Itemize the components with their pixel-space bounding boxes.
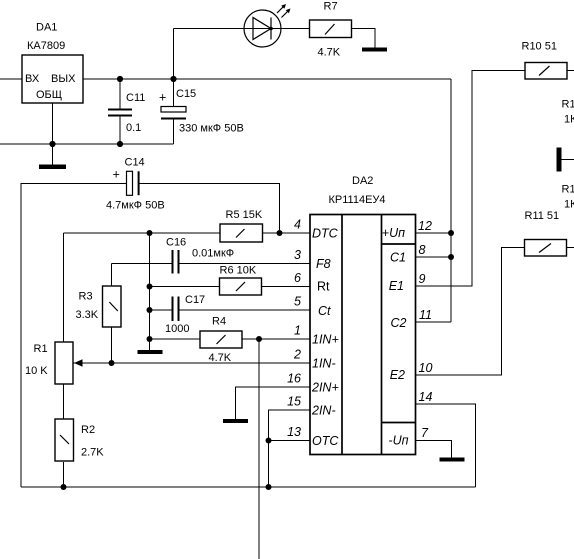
wire: divider rail riser to ground xyxy=(149,233,151,350)
ground (R7) xyxy=(362,48,387,52)
wire: pin 16 rail (2IN+) to ground xyxy=(236,387,311,419)
wire: pin 1 node to bottom edge xyxy=(258,339,260,559)
svg-text:R12: R12 xyxy=(562,99,574,111)
wire: input to DA1 xyxy=(0,78,22,80)
svg-text:+: + xyxy=(113,168,120,182)
svg-text:0.1: 0.1 xyxy=(126,122,141,134)
IC DA2 KR1114EU4 xyxy=(310,175,416,455)
wire: DA2 pin 12 xyxy=(416,232,452,234)
ground (pin 7) xyxy=(440,458,465,462)
wire: R5 to DA2 pin 4 xyxy=(262,232,310,234)
capacitor C16 xyxy=(166,237,234,274)
wire: DA2 pin 11 xyxy=(416,321,452,323)
wire: C16 to DA2 pin 3 xyxy=(180,263,311,265)
svg-text:0.01мкФ: 0.01мкФ xyxy=(192,248,234,260)
svg-text:R13: R13 xyxy=(562,184,574,196)
wire: DA2 pin 9 to R10 xyxy=(416,71,526,287)
wire: R1 top riser xyxy=(63,233,65,342)
resistor R4 xyxy=(200,316,242,365)
svg-text:R2: R2 xyxy=(81,424,95,436)
svg-text:10 K: 10 K xyxy=(25,365,48,377)
junction: pin 8 / +U riser xyxy=(448,254,454,260)
resistor R5 xyxy=(220,209,263,242)
svg-text:-Uп: -Uп xyxy=(388,434,408,448)
svg-text:330 мкФ 50В: 330 мкФ 50В xyxy=(179,123,244,135)
svg-text:DA2: DA2 xyxy=(352,175,373,187)
wire: DA2 pin 7 to ground xyxy=(416,441,452,458)
ground (below DA1) xyxy=(39,165,66,170)
svg-text:1IN+: 1IN+ xyxy=(312,333,339,347)
svg-text:16: 16 xyxy=(287,372,301,386)
junction: pin15 riser / bottom rail xyxy=(266,484,272,490)
svg-text:C1: C1 xyxy=(390,251,406,265)
svg-text:+Uп: +Uп xyxy=(382,226,405,240)
svg-text:7: 7 xyxy=(421,426,429,440)
svg-text:R11 51: R11 51 xyxy=(525,210,560,222)
svg-text:2: 2 xyxy=(293,348,301,362)
svg-text:C14: C14 xyxy=(125,157,145,169)
svg-text:DTC: DTC xyxy=(312,227,339,241)
svg-text:C11: C11 xyxy=(126,92,145,104)
capacitor C11 xyxy=(108,79,145,144)
svg-text:6: 6 xyxy=(294,271,301,285)
resistor R3 xyxy=(76,264,122,364)
wire: R1 to R2 xyxy=(63,384,65,419)
svg-text:15: 15 xyxy=(287,395,301,409)
junction: R5 left / divider rail xyxy=(147,230,153,236)
svg-text:5: 5 xyxy=(294,295,301,309)
svg-text:C2: C2 xyxy=(391,316,407,330)
LED HL1 xyxy=(244,4,291,47)
resistor R6 xyxy=(220,265,262,296)
wire: R2 to bottom rail xyxy=(63,462,65,487)
svg-text:R5 15K: R5 15K xyxy=(226,209,263,221)
svg-text:C16: C16 xyxy=(166,237,186,249)
svg-text:10: 10 xyxy=(419,361,433,375)
svg-text:DA1: DA1 xyxy=(36,22,57,34)
svg-text:ВЫХ: ВЫХ xyxy=(51,73,76,85)
junction: pin 12 / +U riser xyxy=(448,230,454,236)
transistor VT1 base bar (cut off at edge) xyxy=(557,148,562,172)
ground (divider rail) xyxy=(138,350,163,354)
svg-text:OTC: OTC xyxy=(312,434,339,448)
svg-text:3.3K: 3.3K xyxy=(76,309,99,321)
wire: +U rail down to pins 12,8,11 xyxy=(450,79,452,322)
svg-text:2IN-: 2IN- xyxy=(311,404,336,418)
wire: pin 6 rail left (Rt) xyxy=(150,286,221,288)
resistor R10 xyxy=(522,41,568,80)
resistor R2 xyxy=(55,419,104,461)
wire: left riser from C14 to bottom rail xyxy=(21,184,127,488)
svg-text:1000: 1000 xyxy=(165,323,189,335)
svg-text:1IN-: 1IN- xyxy=(312,357,336,371)
wire: VT1 base lead xyxy=(562,159,574,161)
junction: pin 1 node xyxy=(256,336,262,342)
svg-text:1К: 1К xyxy=(564,114,574,126)
svg-text:9: 9 xyxy=(419,272,426,286)
junction: divider rail / C17 xyxy=(147,307,153,313)
junction: C11 top xyxy=(117,76,123,82)
capacitor C14 4.7uF electrolytic xyxy=(106,157,165,212)
wire: DA1 common lead xyxy=(52,103,54,165)
potentiometer R1 xyxy=(25,342,83,384)
junction: R2 / bottom rail xyxy=(61,484,67,490)
wire: DA2 pin 10 to R11 xyxy=(416,248,525,376)
svg-text:8: 8 xyxy=(419,243,426,257)
junction: C15 / LED branch xyxy=(170,76,176,82)
wire: pin 4 rail (DTC) xyxy=(64,232,221,234)
svg-text:ОБЩ: ОБЩ xyxy=(36,89,62,101)
capacitor C17 xyxy=(165,294,205,335)
svg-text:4.7K: 4.7K xyxy=(318,47,341,59)
wire: LED branch xyxy=(174,28,310,30)
capacitor C15 330uF electrolytic xyxy=(159,79,244,144)
junction: pin 4 node xyxy=(277,230,283,236)
svg-text:2IN+: 2IN+ xyxy=(311,381,339,395)
wire: bottom rail xyxy=(21,486,476,488)
wire: R10 right lead xyxy=(567,70,574,72)
wire: pin 3 rail left part (F8) xyxy=(112,263,172,265)
junction: C11 bottom xyxy=(117,141,123,147)
svg-text:ВХ: ВХ xyxy=(25,73,40,85)
svg-text:R3: R3 xyxy=(79,291,93,303)
svg-text:E2: E2 xyxy=(390,368,405,382)
svg-text:14: 14 xyxy=(419,390,433,404)
svg-text:R4: R4 xyxy=(212,316,226,328)
svg-text:R6 10K: R6 10K xyxy=(220,265,257,277)
svg-text:КА7809: КА7809 xyxy=(27,40,65,52)
wire: DA2 pin 14 to bottom rail xyxy=(416,404,476,487)
wire: R7 to ground xyxy=(352,29,376,48)
wire: C17 to DA2 pin 5 xyxy=(180,309,311,311)
svg-text:Rt: Rt xyxy=(317,280,330,294)
wire: R4 to DA2 pin 1 xyxy=(242,338,310,340)
svg-text:+: + xyxy=(159,91,166,105)
svg-text:3: 3 xyxy=(294,248,301,262)
svg-text:4: 4 xyxy=(294,218,301,232)
svg-text:C17: C17 xyxy=(185,294,205,306)
svg-text:2.7K: 2.7K xyxy=(81,447,104,459)
wire: DA1 output +U rail xyxy=(83,78,451,80)
regulator DA1 KA7809 xyxy=(22,22,83,104)
resistor R7 xyxy=(310,1,352,59)
junction: pin 15 / pin 13 xyxy=(266,438,272,444)
junction: DA1 common / ground rail xyxy=(49,141,55,147)
svg-text:E1: E1 xyxy=(389,279,404,293)
junction: divider rail / R6 xyxy=(147,284,153,290)
svg-text:4.7мкФ 50В: 4.7мкФ 50В xyxy=(106,200,165,212)
resistor R11 xyxy=(525,210,567,256)
wire: pin 13 rail (OTC) xyxy=(269,440,311,442)
wire: DA2 pin 8 xyxy=(416,256,452,258)
wire: R1 wiper to DA2 pin 2 xyxy=(74,362,311,364)
svg-text:13: 13 xyxy=(287,425,301,439)
ground (pin 16) xyxy=(223,419,248,423)
wire: pin 15 rail (2IN-) down to bottom rail xyxy=(269,410,311,487)
svg-text:R7: R7 xyxy=(324,1,338,13)
svg-text:1К: 1К xyxy=(564,199,574,211)
svg-text:Ct: Ct xyxy=(318,304,331,318)
svg-text:КР1114ЕУ4: КР1114ЕУ4 xyxy=(329,194,386,206)
svg-text:R1: R1 xyxy=(34,343,48,355)
wire: R6 to DA2 pin 6 xyxy=(262,286,311,288)
junction: R3 bottom / wiper rail xyxy=(109,360,115,366)
svg-text:12: 12 xyxy=(418,219,432,233)
wire: riser to LED xyxy=(173,29,175,80)
svg-text:1: 1 xyxy=(294,324,301,338)
wire: C14 to pin 4 node xyxy=(139,184,280,234)
wire: pin 1 rail left (1IN+) xyxy=(150,338,201,340)
wire: pin 5 rail left (Ct) xyxy=(150,309,172,311)
svg-text:R10 51: R10 51 xyxy=(522,41,557,53)
wire: R11 right lead xyxy=(567,247,574,249)
svg-text:F8: F8 xyxy=(316,257,331,271)
wire: ground rail xyxy=(0,143,174,145)
svg-text:C15: C15 xyxy=(176,88,196,100)
svg-text:11: 11 xyxy=(419,308,432,322)
svg-text:4.7K: 4.7K xyxy=(209,352,232,364)
junction: divider rail / R4 xyxy=(147,336,153,342)
